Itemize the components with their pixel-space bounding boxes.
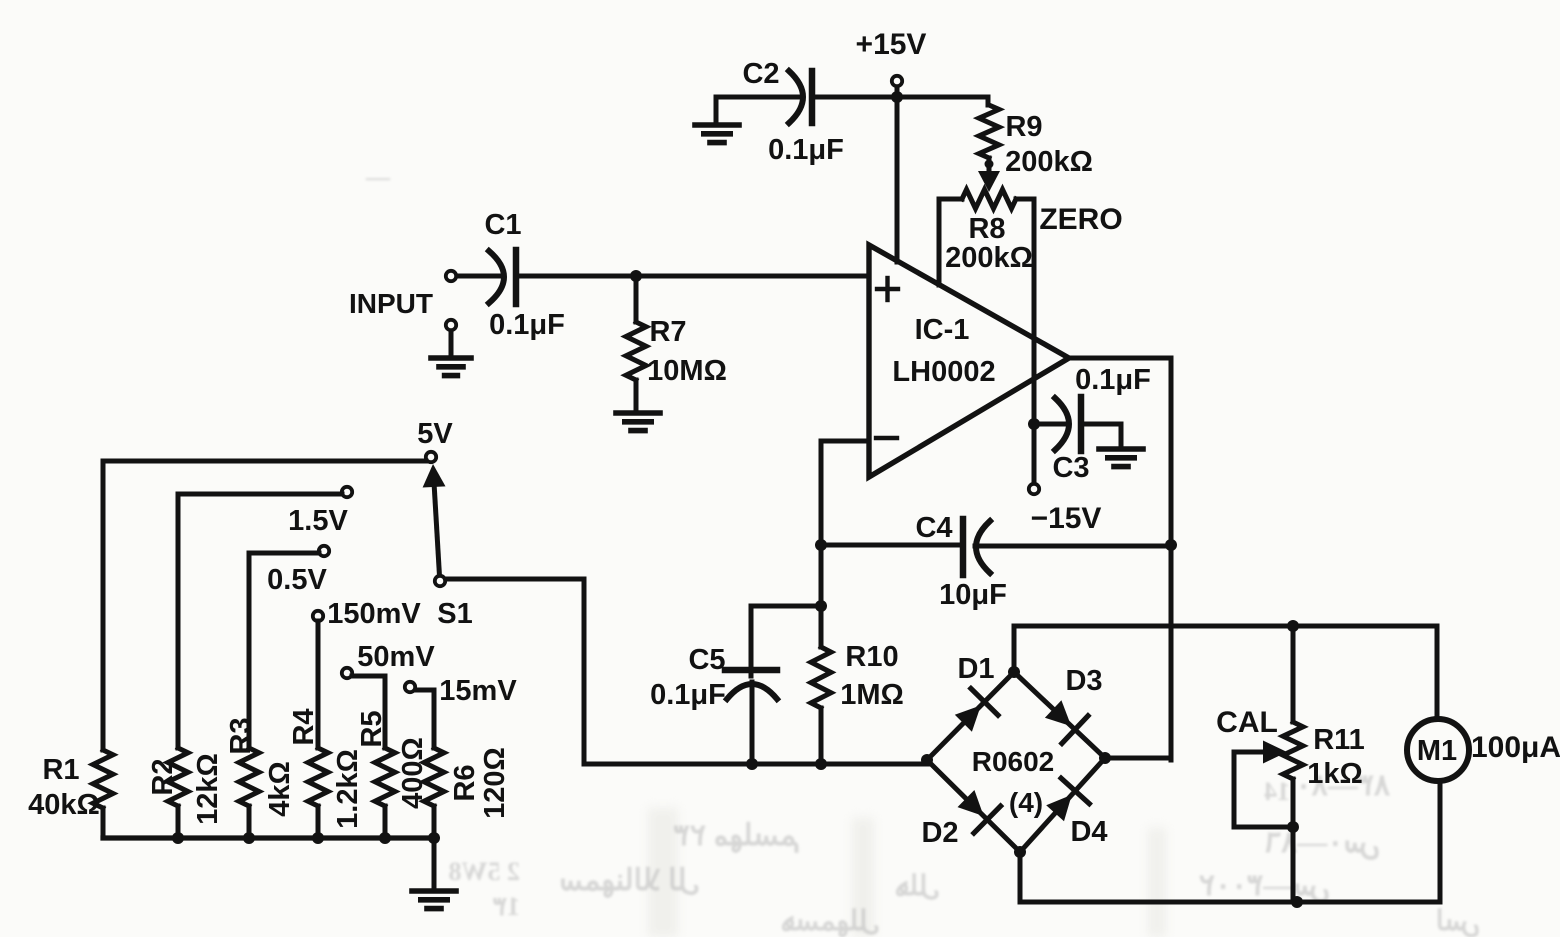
diode D3 [1045,665,1103,743]
svg-text:200kΩ: 200kΩ [1005,146,1093,178]
svg-text:4kΩ: 4kΩ [264,761,296,817]
wire bridge edge D3 side [1014,672,1105,758]
svg-text:200kΩ: 200kΩ [945,242,1033,274]
label 50mV [357,641,435,673]
svg-text:C2: C2 [742,58,779,90]
resistor R2 [168,748,188,838]
wiper arrow R9 to R8 [978,164,1000,192]
svg-text:D3: D3 [1065,665,1102,697]
wire C1 to op-amp + input [516,274,869,279]
wire 150mV tap [316,621,321,748]
wire meter top lead [1435,626,1440,718]
node 15mV tap terminal [405,682,415,692]
svg-text:R4: R4 [288,708,320,745]
svg-text:ZERO: ZERO [1039,203,1122,236]
junction C3 node [1028,418,1040,430]
wire +15V rail [716,95,988,100]
junction C1/R7 node [630,270,642,282]
svg-text:C4: C4 [915,512,952,544]
wire to C3 [1034,422,1067,427]
svg-text:0.1μF: 0.1μF [650,679,726,711]
wire bridge edge D2 side [927,760,1020,852]
wire R1 top [101,461,106,750]
junction R5 bottom [379,832,391,844]
label R10 [845,641,898,673]
svg-text:1kΩ: 1kΩ [1307,758,1363,790]
label R5 value 400Ω [397,737,429,809]
junction bridge left vertex [921,754,933,766]
label R6 value 120Ω [479,747,511,819]
potentiometer R8 [939,190,1034,209]
node 0.5V tap terminal [319,546,329,556]
op-amp IC-1 LH0002 [869,245,1069,477]
svg-text:150mV: 150mV [327,598,421,630]
svg-text:400Ω: 400Ω [397,737,429,809]
svg-text:٨٦—٠س: ٨٦—٠س [1265,826,1380,860]
junction output/C4 [1165,539,1177,551]
wire divider bottom bus [103,835,434,840]
wire 50mV tap [352,676,385,748]
label R3 [225,717,257,754]
label IC-1 [915,314,970,346]
svg-text:٣٠٠٢—س: ٣٠٠٢—س [1199,869,1330,903]
ground (R7) [616,413,660,431]
svg-text:(4): (4) [1009,787,1043,818]
svg-text:120Ω: 120Ω [479,747,511,819]
label +15V [856,28,927,61]
label 15mV [439,675,517,707]
svg-text:هسمهلل: هسمهلل [781,906,880,937]
wire bridge top to meter rail [1014,626,1437,672]
label R8 value 200kΩ [945,242,1033,274]
label R3 value 4kΩ [264,761,296,817]
wire 0.5V tap [249,553,319,748]
svg-text:15mV: 15mV [439,675,517,707]
svg-text:٢٣ مهلسم: ٢٣ مهلسم [674,819,800,853]
wire meter bottom lead [1438,781,1443,902]
label S1 [437,598,472,630]
label C1 value 0.1μF [489,309,565,341]
node 5V tap terminal [426,452,436,462]
junction R2 bottom [172,832,184,844]
resistor R4 [308,748,328,838]
svg-text:لس: لس [1436,906,1480,937]
node 150mV tap terminal [313,611,323,621]
resistor R7 [626,276,646,411]
label ZERO [1039,203,1122,236]
label R7 [649,316,686,348]
diode D4 [1046,778,1107,848]
node S1 pivot [435,576,445,586]
svg-text:50mV: 50mV [357,641,435,673]
switch S1 arm [434,486,439,576]
label R6 [449,764,481,801]
label R9 [1005,111,1042,143]
capacitor C3 [1055,397,1081,451]
junction bridge right vertex [1099,752,1111,764]
node input ground terminal [446,320,456,330]
svg-text:R6: R6 [449,764,481,801]
junction bridge top vertex [1008,666,1020,678]
junction R10/C5 node [815,600,827,612]
svg-text:IC-1: IC-1 [915,314,970,346]
op-amp - input marking [876,436,897,440]
capacitor C1 [489,250,516,304]
resistor R11 [1283,626,1303,902]
meter M1 [1407,719,1469,781]
svg-text:R8: R8 [968,213,1005,245]
label R2 value 12kΩ [192,753,224,825]
svg-text:−15V: −15V [1031,502,1102,535]
label 5V [417,418,453,450]
junction bridge bottom vertex [1014,846,1026,858]
wiper arrow CAL [1263,741,1287,764]
wire R8 left to op-amp [937,199,942,285]
label R4 value 1.2kΩ [332,749,364,829]
label R4 [288,708,320,745]
svg-text:هلل: هلل [895,871,940,902]
label INPUT [349,288,433,319]
svg-text:R5: R5 [356,710,388,747]
ground (C2) [695,97,739,143]
label R9 value 200kΩ [1005,146,1093,178]
junction R10 bottom [815,758,827,770]
label C2 [742,58,779,90]
svg-text:10MΩ: 10MΩ [647,355,727,387]
node INPUT terminal [446,271,456,281]
label R5 [356,710,388,747]
op-amp + input marking [877,278,898,300]
label R7 value 10MΩ [647,355,727,387]
svg-text:1٣: 1٣ [493,892,520,921]
resistor R3 [239,748,259,838]
resistor R6 [424,748,444,838]
label R11 value 1kΩ [1307,758,1363,790]
junction R3 bottom [243,832,255,844]
svg-text:1.5V: 1.5V [288,505,348,537]
junction feedback/C4 [815,539,827,551]
label C5 value 0.1μF [650,679,726,711]
label CAL [1216,706,1278,739]
wire feedback down to R10 [819,545,824,606]
svg-text:LH0002: LH0002 [892,356,995,388]
svg-text:M1: M1 [1417,735,1457,767]
svg-text:0.1μF: 0.1μF [489,309,565,341]
svg-text:R3: R3 [225,717,257,754]
capacitor C5 [725,666,777,764]
label 150mV [327,598,421,630]
svg-text:R9: R9 [1005,111,1042,143]
diode D1 [955,653,998,732]
node -15V terminal [1029,424,1039,494]
wire bridge edge D1 side [927,672,1014,760]
wire 1.5V tap [178,494,342,748]
wire C3 to ground [1081,424,1121,446]
capacitor C2 [789,71,812,123]
svg-text:S1: S1 [437,598,472,630]
label C4 [915,512,952,544]
label C5 [688,644,725,676]
label 1.5V [288,505,348,537]
svg-text:R10: R10 [845,641,898,673]
wire 5V tap [103,459,426,464]
label R8 [968,213,1005,245]
node +15V terminal [892,76,902,97]
svg-text:0.5V: 0.5V [267,564,327,596]
junction R11 wiper tap [1287,821,1299,833]
wire R8 right to -15V pin [1032,199,1037,424]
junction C5 bottom [746,758,758,770]
label C2 value 0.1μF [768,134,844,166]
wire op-amp output [1069,358,1171,760]
svg-text:—: — [365,165,391,191]
svg-text:5V: 5V [417,418,453,450]
svg-text:1MΩ: 1MΩ [840,679,904,711]
resistor R10 [811,606,831,764]
svg-text:0.1μF: 0.1μF [1075,364,1151,396]
svg-text:C5: C5 [688,644,725,676]
resistor R1 [93,750,113,838]
node 1.5V tap terminal [342,487,352,497]
svg-text:10μF: 10μF [939,579,1007,611]
label C3 value 0.1μF [1075,364,1151,396]
svg-text:CAL: CAL [1216,706,1278,739]
ground (C3) [1099,449,1143,467]
svg-text:1.2kΩ: 1.2kΩ [332,749,364,829]
svg-text:R0602: R0602 [972,746,1055,777]
wire bridge bottom to meter return [1020,852,1440,902]
wire CAL wiper loop [1234,752,1293,827]
wire summing bus [584,762,929,767]
junction R4 bottom [312,832,324,844]
diode D2 [921,790,1000,849]
label R1 value 40kΩ [28,789,100,821]
svg-text:C1: C1 [484,209,521,241]
svg-text:+15V: +15V [856,28,927,61]
wire 15mV tap [416,690,434,748]
junction R9 bottom [985,160,994,169]
node 50mV tap terminal [342,668,352,678]
label R0602 [972,746,1055,777]
resistor R5 [375,748,395,838]
wire S1 to summing bus [445,579,584,764]
ground (divider) [412,838,456,909]
label C3 [1052,452,1089,484]
label R1 [42,754,79,786]
label C1 [484,209,521,241]
svg-text:D2: D2 [921,817,958,849]
svg-text:R2: R2 [147,758,179,795]
svg-text:0.1μF: 0.1μF [768,134,844,166]
svg-text:40kΩ: 40kΩ [28,789,100,821]
ground (input) [431,331,471,376]
svg-text:14: 14 [1264,777,1290,806]
wire C5 branch [751,606,821,666]
svg-text:D4: D4 [1070,816,1107,848]
svg-text:R1: R1 [42,754,79,786]
label C4 value 10μF [939,579,1007,611]
svg-text:100μA: 100μA [1471,731,1560,764]
wire +15V to op-amp V+ [895,97,900,262]
label R11 [1313,724,1365,756]
wire - input feedback [821,441,869,545]
svg-text:R11: R11 [1313,724,1365,756]
label R2 [147,758,179,795]
svg-text:12kΩ: 12kΩ [192,753,224,825]
junction meter return [1291,896,1303,908]
label -15V [1031,502,1102,535]
svg-text:INPUT: INPUT [349,288,433,319]
svg-text:C3: C3 [1052,452,1089,484]
label 0.5V [267,564,327,596]
svg-text:D1: D1 [957,653,994,685]
label (4) [1009,787,1043,818]
label R10 value 1MΩ [840,679,904,711]
label LH0002 [892,356,995,388]
junction R6 bottom [428,832,440,844]
svg-text:سمهناللا لل: سمهناللا لل [559,864,700,898]
svg-text:R7: R7 [649,316,686,348]
junction R11 top [1287,620,1299,632]
capacitor C4 [821,519,1171,575]
resistor R9 [979,97,999,165]
wire bridge edge D4 side [1020,758,1105,852]
junction +15V node [891,91,903,103]
wire bridge right to output line [1105,756,1171,761]
wire input to C1 [457,274,502,279]
label 100μA [1471,731,1560,764]
svg-text:2 5W8: 2 5W8 [449,857,521,886]
switch S1 wiper arrow [423,464,446,488]
